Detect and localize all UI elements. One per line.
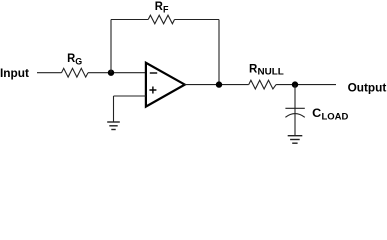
node A junction dot: [108, 70, 114, 76]
svg-text:R: R: [249, 61, 258, 75]
label RF: [155, 0, 169, 15]
svg-text:G: G: [75, 56, 82, 67]
wire capacitor to ground: [294, 113, 296, 135]
capacitor CLOAD top plate: [285, 107, 304, 109]
node B junction dot (output of op-amp): [216, 81, 222, 87]
ground (op-amp non-inverting input): [107, 122, 120, 130]
op-amp plus sign: [149, 87, 156, 94]
wire to ground left: [113, 96, 115, 122]
wire load node down to capacitor: [294, 85, 296, 114]
svg-text:Output: Output: [348, 81, 387, 95]
wire feedback top right: [175, 19, 220, 21]
wire feedback right vertical: [218, 20, 220, 85]
label RG: [67, 51, 82, 67]
resistor RF: [148, 15, 174, 24]
op-amp minus sign: [150, 72, 157, 74]
svg-text:C: C: [312, 106, 321, 120]
svg-text:Input: Input: [0, 66, 29, 80]
resistor RG: [62, 68, 89, 77]
resistor RNULL: [249, 80, 276, 89]
wire feedback left vertical: [110, 20, 112, 73]
label RNULL: [249, 61, 284, 77]
wire op-amp non-inverting input: [114, 95, 147, 97]
capacitor CLOAD curved plate: [285, 114, 304, 118]
svg-text:LOAD: LOAD: [322, 111, 349, 122]
wire RNULL to output node: [276, 84, 336, 86]
label CLOAD: [312, 106, 348, 122]
svg-text:F: F: [163, 4, 169, 15]
svg-text:NULL: NULL: [258, 67, 285, 78]
wire input to RG: [37, 72, 62, 74]
node C junction dot (load node): [292, 81, 298, 87]
svg-text:R: R: [67, 51, 75, 65]
op-amp U1: [146, 63, 185, 107]
svg-text:R: R: [155, 0, 163, 13]
wire op-amp output: [184, 84, 248, 86]
wire RG to op-amp inverting input: [88, 72, 146, 74]
wire feedback top left: [111, 19, 148, 21]
ground (load): [288, 136, 303, 144]
